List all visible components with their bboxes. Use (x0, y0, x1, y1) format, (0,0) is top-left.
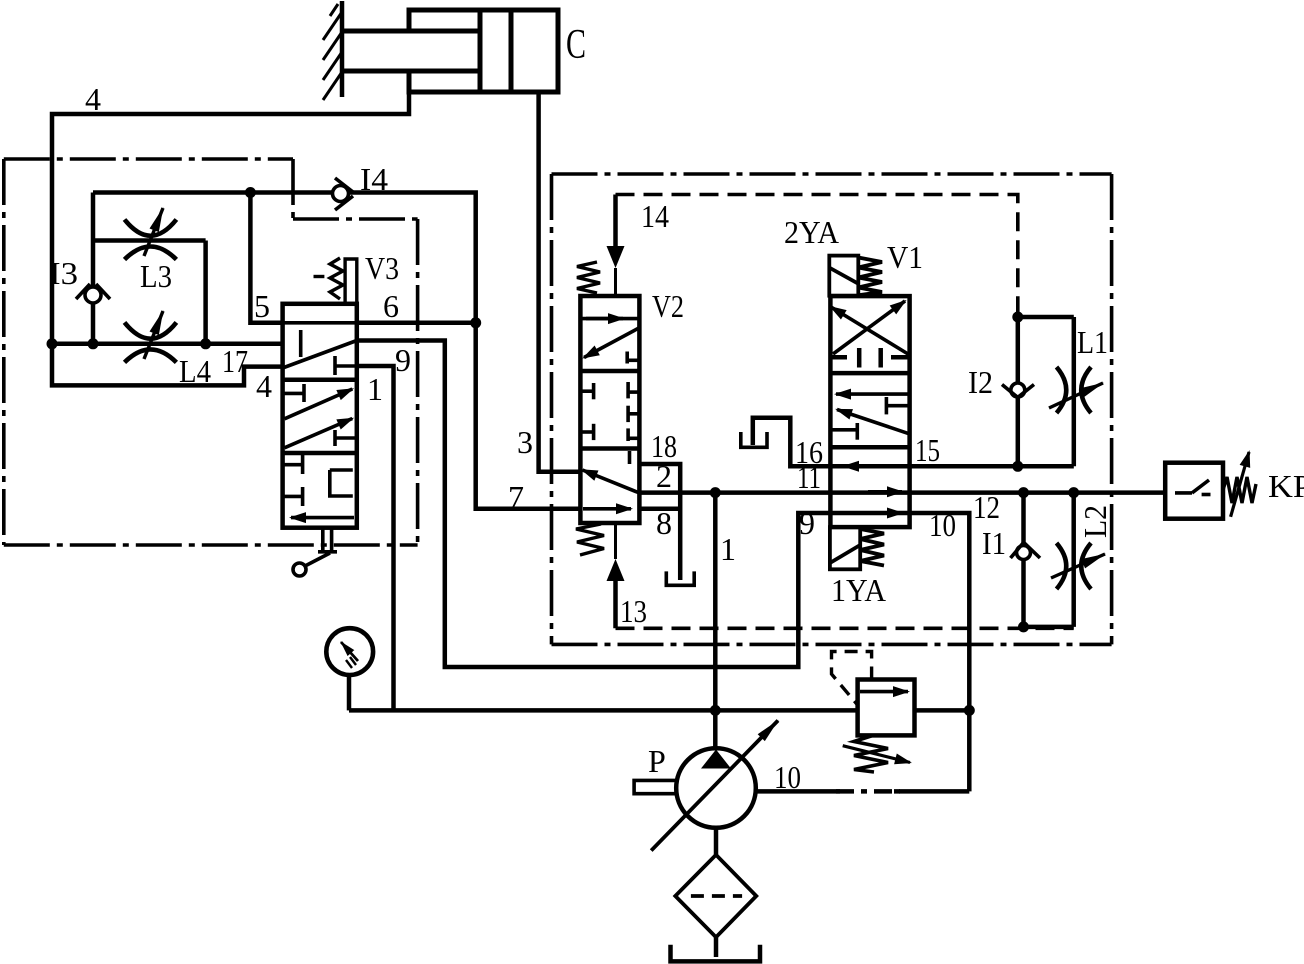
svg-text:10: 10 (929, 507, 956, 543)
wire main bus 2-11-12 (639, 490, 1165, 495)
svg-text:4: 4 (256, 368, 272, 404)
pressure gauge (326, 628, 373, 710)
valve V2 body (580, 296, 639, 523)
svg-text:1: 1 (367, 371, 383, 407)
svg-text:V3: V3 (365, 250, 399, 286)
valve V1 position-1 X paths (831, 301, 908, 354)
svg-text:9: 9 (395, 342, 411, 378)
valve V3 position-3 internals (283, 455, 354, 518)
check valve I3 (76, 284, 110, 303)
wire 4 from cylinder rod end to left (52, 92, 409, 385)
valve V2 position-3 internals (583, 451, 640, 509)
valve V1 lower section through-paths (844, 466, 902, 513)
wall mount hatching (323, 1, 342, 100)
svg-text:L4: L4 (179, 353, 211, 389)
node 15/I2 (1012, 461, 1023, 472)
dashed pilot box top edge (616, 195, 1018, 318)
check valve I2 (1002, 383, 1034, 397)
dash-dot enclosure (right subsystem) (552, 174, 1112, 644)
svg-text:L3: L3 (140, 258, 172, 294)
node wire17-L3 (200, 338, 211, 349)
pressure switch KP (1165, 452, 1256, 519)
svg-text:17: 17 (222, 343, 248, 379)
svg-text:I4: I4 (360, 161, 388, 197)
wire 15 (830, 464, 1073, 469)
wire 17 with L4 (52, 342, 283, 347)
solenoid 2YA (829, 256, 882, 296)
node port6 junction (470, 317, 481, 328)
node junction I4 line (245, 187, 256, 198)
wire 9 from V3 to V1 (357, 341, 831, 668)
relief valve (832, 652, 915, 773)
wire L3 branch left vertical (91, 193, 96, 344)
wire 10 pump outlet (756, 789, 970, 794)
wire filter to tank (714, 937, 719, 957)
wire L3 horizontal (93, 238, 206, 243)
wire 1 vertical to pump (713, 493, 718, 749)
tank main (671, 945, 761, 962)
svg-text:C: C (566, 22, 586, 68)
wire port 16 to tank (753, 418, 831, 467)
svg-text:9: 9 (799, 505, 815, 541)
valve V3 position-1 internals (283, 323, 357, 375)
svg-text:14: 14 (641, 198, 669, 234)
wire pump to filter (714, 828, 719, 855)
svg-text:5: 5 (254, 288, 270, 324)
node L1 top (1012, 312, 1023, 323)
valve V1 body (830, 296, 909, 527)
svg-text:L1: L1 (1077, 324, 1108, 360)
svg-text:11: 11 (797, 459, 821, 495)
svg-text:3: 3 (517, 424, 533, 460)
svg-text:8: 8 (656, 505, 672, 541)
wire port 18 to tank (639, 464, 680, 580)
node I1 bottom (1018, 621, 1029, 632)
dashed pilot box bottom edge (616, 626, 1074, 630)
svg-text:2: 2 (656, 458, 672, 494)
svg-text:2YA: 2YA (784, 214, 839, 250)
check valve I1 (1011, 543, 1041, 559)
svg-text:I1: I1 (982, 525, 1006, 561)
svg-text:P: P (648, 743, 666, 779)
wire port 6 (357, 321, 476, 326)
valve V1 position-2 internals (830, 394, 909, 440)
filter (675, 855, 756, 937)
node bus/I1 (1018, 487, 1029, 498)
svg-text:15: 15 (915, 432, 940, 468)
node bus/L2 (1068, 487, 1079, 498)
wire from cylinder head side down to V2 port 3 (539, 92, 581, 472)
svg-text:6: 6 (383, 288, 399, 324)
check valve I4 (333, 178, 354, 210)
svg-text:V2: V2 (652, 288, 684, 324)
node relief/10 (964, 705, 975, 716)
piston rod (342, 31, 480, 71)
branch L2/I1 (1024, 493, 1074, 627)
svg-text:I3: I3 (49, 255, 78, 291)
dash-dot enclosure (left subsystem) (4, 159, 418, 545)
valve V2 position-1 internals (580, 319, 639, 364)
valve V2 position-2 internals (580, 382, 639, 441)
valve V3 body (283, 304, 357, 528)
pump P (634, 721, 778, 851)
wire 1 from V3 to pressure line (357, 366, 394, 710)
svg-text:1: 1 (720, 531, 736, 567)
branch L1/I2 (1018, 317, 1074, 466)
wire relief to node 10 (915, 708, 970, 713)
svg-text:L2: L2 (1077, 505, 1113, 538)
throttle valve L2 (1051, 543, 1105, 589)
svg-text:7: 7 (508, 479, 524, 515)
svg-text:I2: I2 (968, 364, 993, 400)
tank at port 18 (666, 571, 694, 585)
throttle valve L3 (125, 208, 177, 260)
pilot wire 14 (607, 195, 625, 297)
cylinder C body (409, 10, 558, 92)
wire port 10 down (830, 513, 969, 791)
solenoid 1YA (830, 527, 884, 569)
svg-text:KP: KP (1268, 468, 1304, 504)
node pump top junction (710, 705, 721, 716)
node bus junction 1 (710, 487, 721, 498)
wire pressure line (349, 708, 858, 713)
valve V2 bottom spring (576, 524, 604, 555)
svg-text:1YA: 1YA (831, 572, 886, 608)
throttle valve L1 (1049, 367, 1103, 413)
svg-text:13: 13 (620, 593, 647, 629)
wire port 8 (639, 507, 680, 512)
wire port 5 (250, 193, 282, 323)
pilot wire 13 (607, 523, 625, 628)
svg-text:12: 12 (973, 489, 1000, 525)
node wire17-left (47, 338, 58, 349)
throttle valve L4 (125, 311, 177, 362)
valve V3 position-2 internals (283, 384, 357, 448)
tank at port 16 (741, 432, 767, 447)
svg-text:V1: V1 (887, 239, 923, 275)
valve V3 spring (314, 258, 357, 304)
node wire17-I3 (88, 338, 99, 349)
wire L3 top / I4 line (93, 193, 580, 509)
svg-text:10: 10 (774, 759, 801, 795)
valve V2 top spring (577, 262, 600, 293)
valve V3 lever (293, 528, 337, 576)
wire L3 branch right vertical (203, 241, 208, 344)
svg-text:4: 4 (85, 81, 101, 117)
